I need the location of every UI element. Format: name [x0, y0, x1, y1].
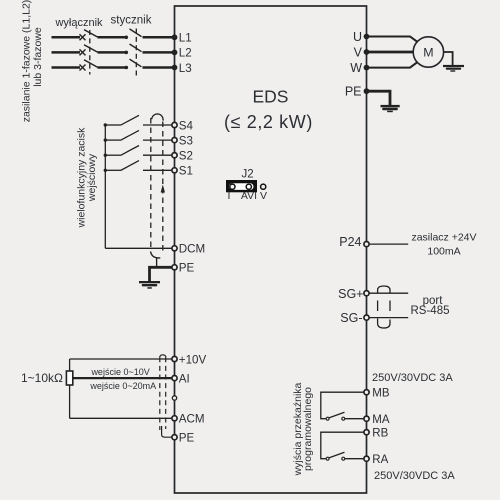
- svg-text:AI: AI: [179, 372, 190, 385]
- svg-text:P24: P24: [339, 235, 361, 249]
- svg-text:wejście 0~10V: wejście 0~10V: [90, 367, 149, 377]
- svg-text:wejście 0~20mA: wejście 0~20mA: [89, 381, 156, 391]
- analog shield dashed right: [165, 357, 167, 429]
- analog box left rail: [69, 359, 71, 418]
- jumper J2 block: [226, 180, 257, 192]
- contactor contact dot L2: [125, 51, 129, 55]
- breaker blade L3: [84, 60, 98, 67]
- relay 2 contact right: [342, 457, 345, 460]
- svg-text:L2: L2: [179, 47, 192, 60]
- analog box top wire (+10V): [70, 358, 172, 360]
- shield arrow up: [161, 185, 165, 193]
- svg-text:1~10kΩ: 1~10kΩ: [21, 371, 63, 385]
- svg-text:M: M: [423, 45, 433, 59]
- svg-text:wyłącznik: wyłącznik: [54, 17, 103, 29]
- svg-text:RB: RB: [372, 427, 388, 439]
- terminal W: [364, 65, 370, 71]
- svg-text:250V/30VDC 3A: 250V/30VDC 3A: [372, 372, 453, 384]
- wire SG-: [369, 317, 408, 319]
- terminal L2: [172, 50, 178, 56]
- svg-text:programowalnego: programowalnego: [302, 387, 314, 471]
- terminal P24: [364, 242, 369, 247]
- wire U to motor: [367, 37, 418, 42]
- terminal S3: [172, 138, 177, 143]
- svg-text:RA: RA: [372, 454, 388, 466]
- terminal S4: [172, 122, 177, 127]
- svg-text:J2: J2: [242, 169, 254, 181]
- terminal DCM: [172, 246, 177, 251]
- jumper pin V open: [261, 184, 266, 189]
- breaker pole contact x L3: [80, 65, 86, 71]
- wire L1 input segment: [52, 36, 81, 39]
- terminal +10V: [172, 356, 177, 361]
- svg-text:S1: S1: [179, 165, 193, 178]
- wiper wire to AI: [73, 377, 172, 379]
- wire V to motor: [367, 51, 414, 54]
- contactor linkage dashed: [135, 29, 137, 78]
- svg-text:V: V: [354, 46, 363, 60]
- wire L1 middle segment: [98, 36, 126, 39]
- terminal SG-: [364, 315, 369, 320]
- terminal PE: [172, 265, 177, 270]
- potentiometer body: [66, 371, 72, 385]
- switch S1: [104, 169, 107, 172]
- analog box bottom wire (ACM): [70, 417, 172, 419]
- svg-text:V: V: [260, 190, 267, 202]
- wire L3 input segment: [52, 66, 81, 69]
- breaker linkage dashed: [89, 30, 91, 75]
- wire P24: [369, 243, 408, 245]
- ground symbol motor: [443, 65, 464, 72]
- breaker blade L1: [84, 30, 98, 37]
- multifunction input common rail: [104, 125, 106, 248]
- contactor contact dot L1: [125, 36, 129, 40]
- svg-text:PE: PE: [345, 85, 362, 99]
- relay 2 contact left: [326, 457, 329, 460]
- svg-text:MA: MA: [372, 414, 390, 426]
- svg-text:L3: L3: [179, 62, 192, 75]
- RS-485 cable symbol: [378, 286, 390, 293]
- svg-text:DCM: DCM: [179, 243, 205, 256]
- wire PE thick: [150, 267, 172, 281]
- svg-text:+10V: +10V: [179, 353, 207, 366]
- svg-text:PE: PE: [179, 432, 195, 445]
- relay 1 wire MA: [345, 418, 364, 420]
- svg-text:L1: L1: [179, 32, 192, 45]
- terminal AI: [172, 376, 177, 381]
- wire L1 to terminal: [143, 36, 173, 39]
- breaker pole contact x L2: [80, 49, 86, 55]
- relay 2 wire RA: [345, 458, 364, 460]
- analog shield dashed left: [159, 357, 161, 430]
- svg-text:SG-: SG-: [340, 311, 362, 325]
- svg-text:SG+: SG+: [338, 287, 363, 301]
- breaker blade L2: [84, 45, 98, 52]
- svg-text:wejściowy: wejściowy: [86, 153, 98, 202]
- terminal MA: [364, 416, 369, 421]
- wire L2 input segment: [52, 51, 81, 54]
- motor M1: [413, 37, 443, 67]
- svg-text:RS-485: RS-485: [411, 305, 450, 317]
- PE right ground wire: [367, 91, 391, 105]
- wire L3 to terminal: [143, 66, 173, 69]
- svg-text:S3: S3: [179, 134, 193, 147]
- svg-text:100mA: 100mA: [427, 245, 460, 257]
- svg-text:lub 3-fazowe: lub 3-fazowe: [32, 27, 44, 87]
- terminal RA: [364, 456, 369, 461]
- svg-text:S4: S4: [179, 119, 194, 132]
- contactor blade L1: [130, 29, 142, 37]
- wire L3 middle segment: [98, 66, 126, 69]
- wire L2 middle segment: [98, 51, 126, 54]
- svg-text:PE: PE: [179, 262, 195, 275]
- analog shield hook to PE: [162, 426, 172, 437]
- svg-text:zasilacz +24V: zasilacz +24V: [411, 231, 476, 243]
- terminal RB: [364, 430, 369, 435]
- terminal L3: [172, 65, 178, 71]
- switch S3: [104, 138, 107, 141]
- ground symbol PE right: [381, 105, 400, 112]
- relay 2 blade: [329, 452, 344, 457]
- unlabeled terminal: [172, 396, 176, 400]
- relay 2 wire RB: [321, 432, 364, 459]
- relay 1 contact right: [342, 417, 345, 420]
- svg-text:AVI: AVI: [241, 190, 257, 202]
- svg-text:MB: MB: [372, 387, 390, 399]
- svg-text:ACM: ACM: [179, 413, 205, 426]
- contactor blade L3: [130, 59, 142, 67]
- svg-text:EDS: EDS: [253, 87, 289, 107]
- terminal PE right: [364, 88, 370, 94]
- shield dashed line left: [150, 118, 152, 251]
- shield drain hook to PE: [151, 252, 161, 258]
- relay 1 blade: [329, 412, 344, 417]
- contactor contact dot L3: [125, 66, 129, 70]
- terminal PE analog: [172, 435, 177, 440]
- wire SG+: [369, 292, 408, 294]
- switch S4: [104, 123, 107, 126]
- svg-text:W: W: [350, 61, 362, 75]
- terminal S2: [172, 153, 177, 158]
- inverter outline box: [175, 6, 367, 493]
- shield loop arc above S4: [152, 114, 163, 121]
- svg-text:stycznik: stycznik: [111, 15, 152, 27]
- terminal ACM: [172, 416, 177, 421]
- motor ground wire: [444, 52, 453, 65]
- terminal S1: [172, 168, 177, 173]
- terminal V: [364, 49, 370, 55]
- relay 1 contact left: [326, 417, 329, 420]
- svg-text:I: I: [228, 190, 231, 202]
- svg-text:zasilanie 1-fazowe (L1,L2): zasilanie 1-fazowe (L1,L2): [21, 0, 33, 122]
- wire W to motor: [367, 62, 418, 67]
- wire L2 to terminal: [143, 51, 173, 54]
- breaker pole contact x L1: [80, 34, 86, 40]
- terminal U: [364, 34, 370, 40]
- svg-text:(≤ 2,2 kW): (≤ 2,2 kW): [224, 112, 313, 132]
- svg-text:U: U: [353, 30, 362, 44]
- svg-text:S2: S2: [179, 150, 193, 163]
- analog shield arc top: [160, 355, 166, 357]
- contactor blade L2: [130, 44, 142, 52]
- relay 1 wire MB: [321, 392, 364, 419]
- switch S2: [104, 154, 107, 157]
- shield dashed line right: [162, 122, 164, 252]
- ground symbol left: [139, 281, 160, 289]
- terminal L1: [172, 34, 178, 40]
- svg-text:250V/30VDC 3A: 250V/30VDC 3A: [374, 470, 455, 482]
- terminal MB: [364, 390, 369, 395]
- wire DCM: [105, 247, 171, 249]
- terminal SG+: [364, 291, 369, 296]
